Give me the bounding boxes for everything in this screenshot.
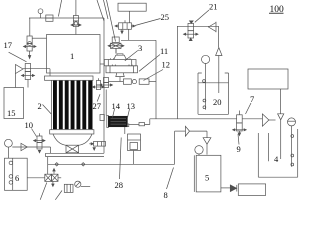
svg-text:15: 15	[7, 108, 16, 118]
svg-text:10: 10	[25, 120, 34, 130]
svg-text:14: 14	[112, 101, 121, 111]
svg-text:17: 17	[4, 40, 13, 50]
svg-text:8: 8	[164, 190, 168, 200]
svg-text:9: 9	[237, 144, 241, 154]
svg-text:27: 27	[93, 101, 102, 111]
svg-text:11: 11	[160, 46, 168, 56]
svg-text:28: 28	[115, 180, 124, 190]
svg-text:21: 21	[209, 2, 218, 12]
svg-text:25: 25	[161, 12, 170, 22]
svg-text:6: 6	[15, 173, 19, 183]
svg-text:2: 2	[38, 101, 42, 111]
svg-text:7: 7	[250, 94, 254, 104]
svg-text:12: 12	[162, 60, 171, 70]
svg-text:3: 3	[138, 43, 142, 53]
svg-text:5: 5	[205, 173, 209, 183]
svg-text:13: 13	[127, 101, 136, 111]
svg-text:1: 1	[70, 51, 74, 61]
svg-text:20: 20	[213, 97, 222, 107]
